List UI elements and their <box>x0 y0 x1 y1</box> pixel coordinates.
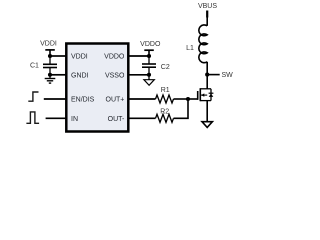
svg-text:EN/DIS: EN/DIS <box>71 96 95 103</box>
node VBUS terminal tick <box>206 11 208 18</box>
svg-text:VDDO: VDDO <box>140 41 161 48</box>
wire VSSO to pin <box>129 74 149 76</box>
node VSSO junction <box>147 73 151 77</box>
wire OUT+ to R1 <box>129 98 156 100</box>
svg-text:VDDI: VDDI <box>40 41 57 48</box>
wire R1 to gate junction <box>174 98 189 100</box>
svg-text:C1: C1 <box>30 62 39 69</box>
ground (power, open triangle) <box>202 122 212 128</box>
wire OUT- to R2 <box>129 117 156 119</box>
ground (signal, bars) <box>45 75 56 83</box>
node VDDI junction <box>48 54 52 58</box>
node VDDO junction <box>147 54 151 58</box>
driver IC U1 body <box>66 44 128 132</box>
resistor R2 <box>156 114 174 122</box>
capacitor C2 <box>142 56 156 75</box>
wire VDDI to pin <box>50 55 66 57</box>
svg-text:VDDO: VDDO <box>104 54 125 61</box>
svg-text:R2: R2 <box>160 108 169 115</box>
svg-text:R1: R1 <box>161 87 170 94</box>
wire VBUS to L1 <box>206 18 208 26</box>
svg-text:OUT-: OUT- <box>108 116 125 123</box>
wire VDDO terminal stub <box>148 50 150 56</box>
svg-text:VBUS: VBUS <box>198 3 217 10</box>
svg-text:VDDI: VDDI <box>71 54 88 61</box>
step waveform symbol (EN/DIS input) <box>28 92 38 101</box>
wire SW to Q1 drain <box>206 75 208 89</box>
svg-text:OUT+: OUT+ <box>106 96 125 103</box>
node GNDI junction <box>48 73 52 77</box>
node SW junction <box>205 73 209 77</box>
wire L1 to SW node <box>206 62 208 75</box>
svg-text:L1: L1 <box>186 45 194 52</box>
wire R2 to gate junction <box>174 99 189 118</box>
wire gate lead <box>188 98 198 100</box>
svg-text:VSSO: VSSO <box>105 72 125 79</box>
svg-text:C2: C2 <box>161 64 170 71</box>
node VDDI terminal bar <box>45 49 55 51</box>
svg-text:SW: SW <box>222 72 234 79</box>
svg-text:GNDI: GNDI <box>71 72 89 79</box>
wire GNDI to pin <box>50 74 66 76</box>
transistor Q1 (N-MOSFET with body diode) <box>198 88 214 101</box>
node gate junction <box>186 97 190 101</box>
wire VDDI terminal stub <box>49 50 51 56</box>
svg-text:IN: IN <box>71 116 78 123</box>
wire EN/DIS input <box>44 98 66 100</box>
wire SW stub <box>207 74 220 76</box>
ground (chassis, open triangle) <box>144 75 154 86</box>
wire VDDO to pin <box>129 55 149 57</box>
node VDDO terminal bar <box>144 49 154 51</box>
inductor L1 <box>199 25 207 63</box>
wire Q1 source to ground <box>206 101 208 122</box>
resistor R1 <box>156 95 174 103</box>
wire IN input <box>46 117 66 119</box>
pulse waveform symbol (IN input) <box>26 112 39 123</box>
capacitor C1 <box>43 56 57 75</box>
